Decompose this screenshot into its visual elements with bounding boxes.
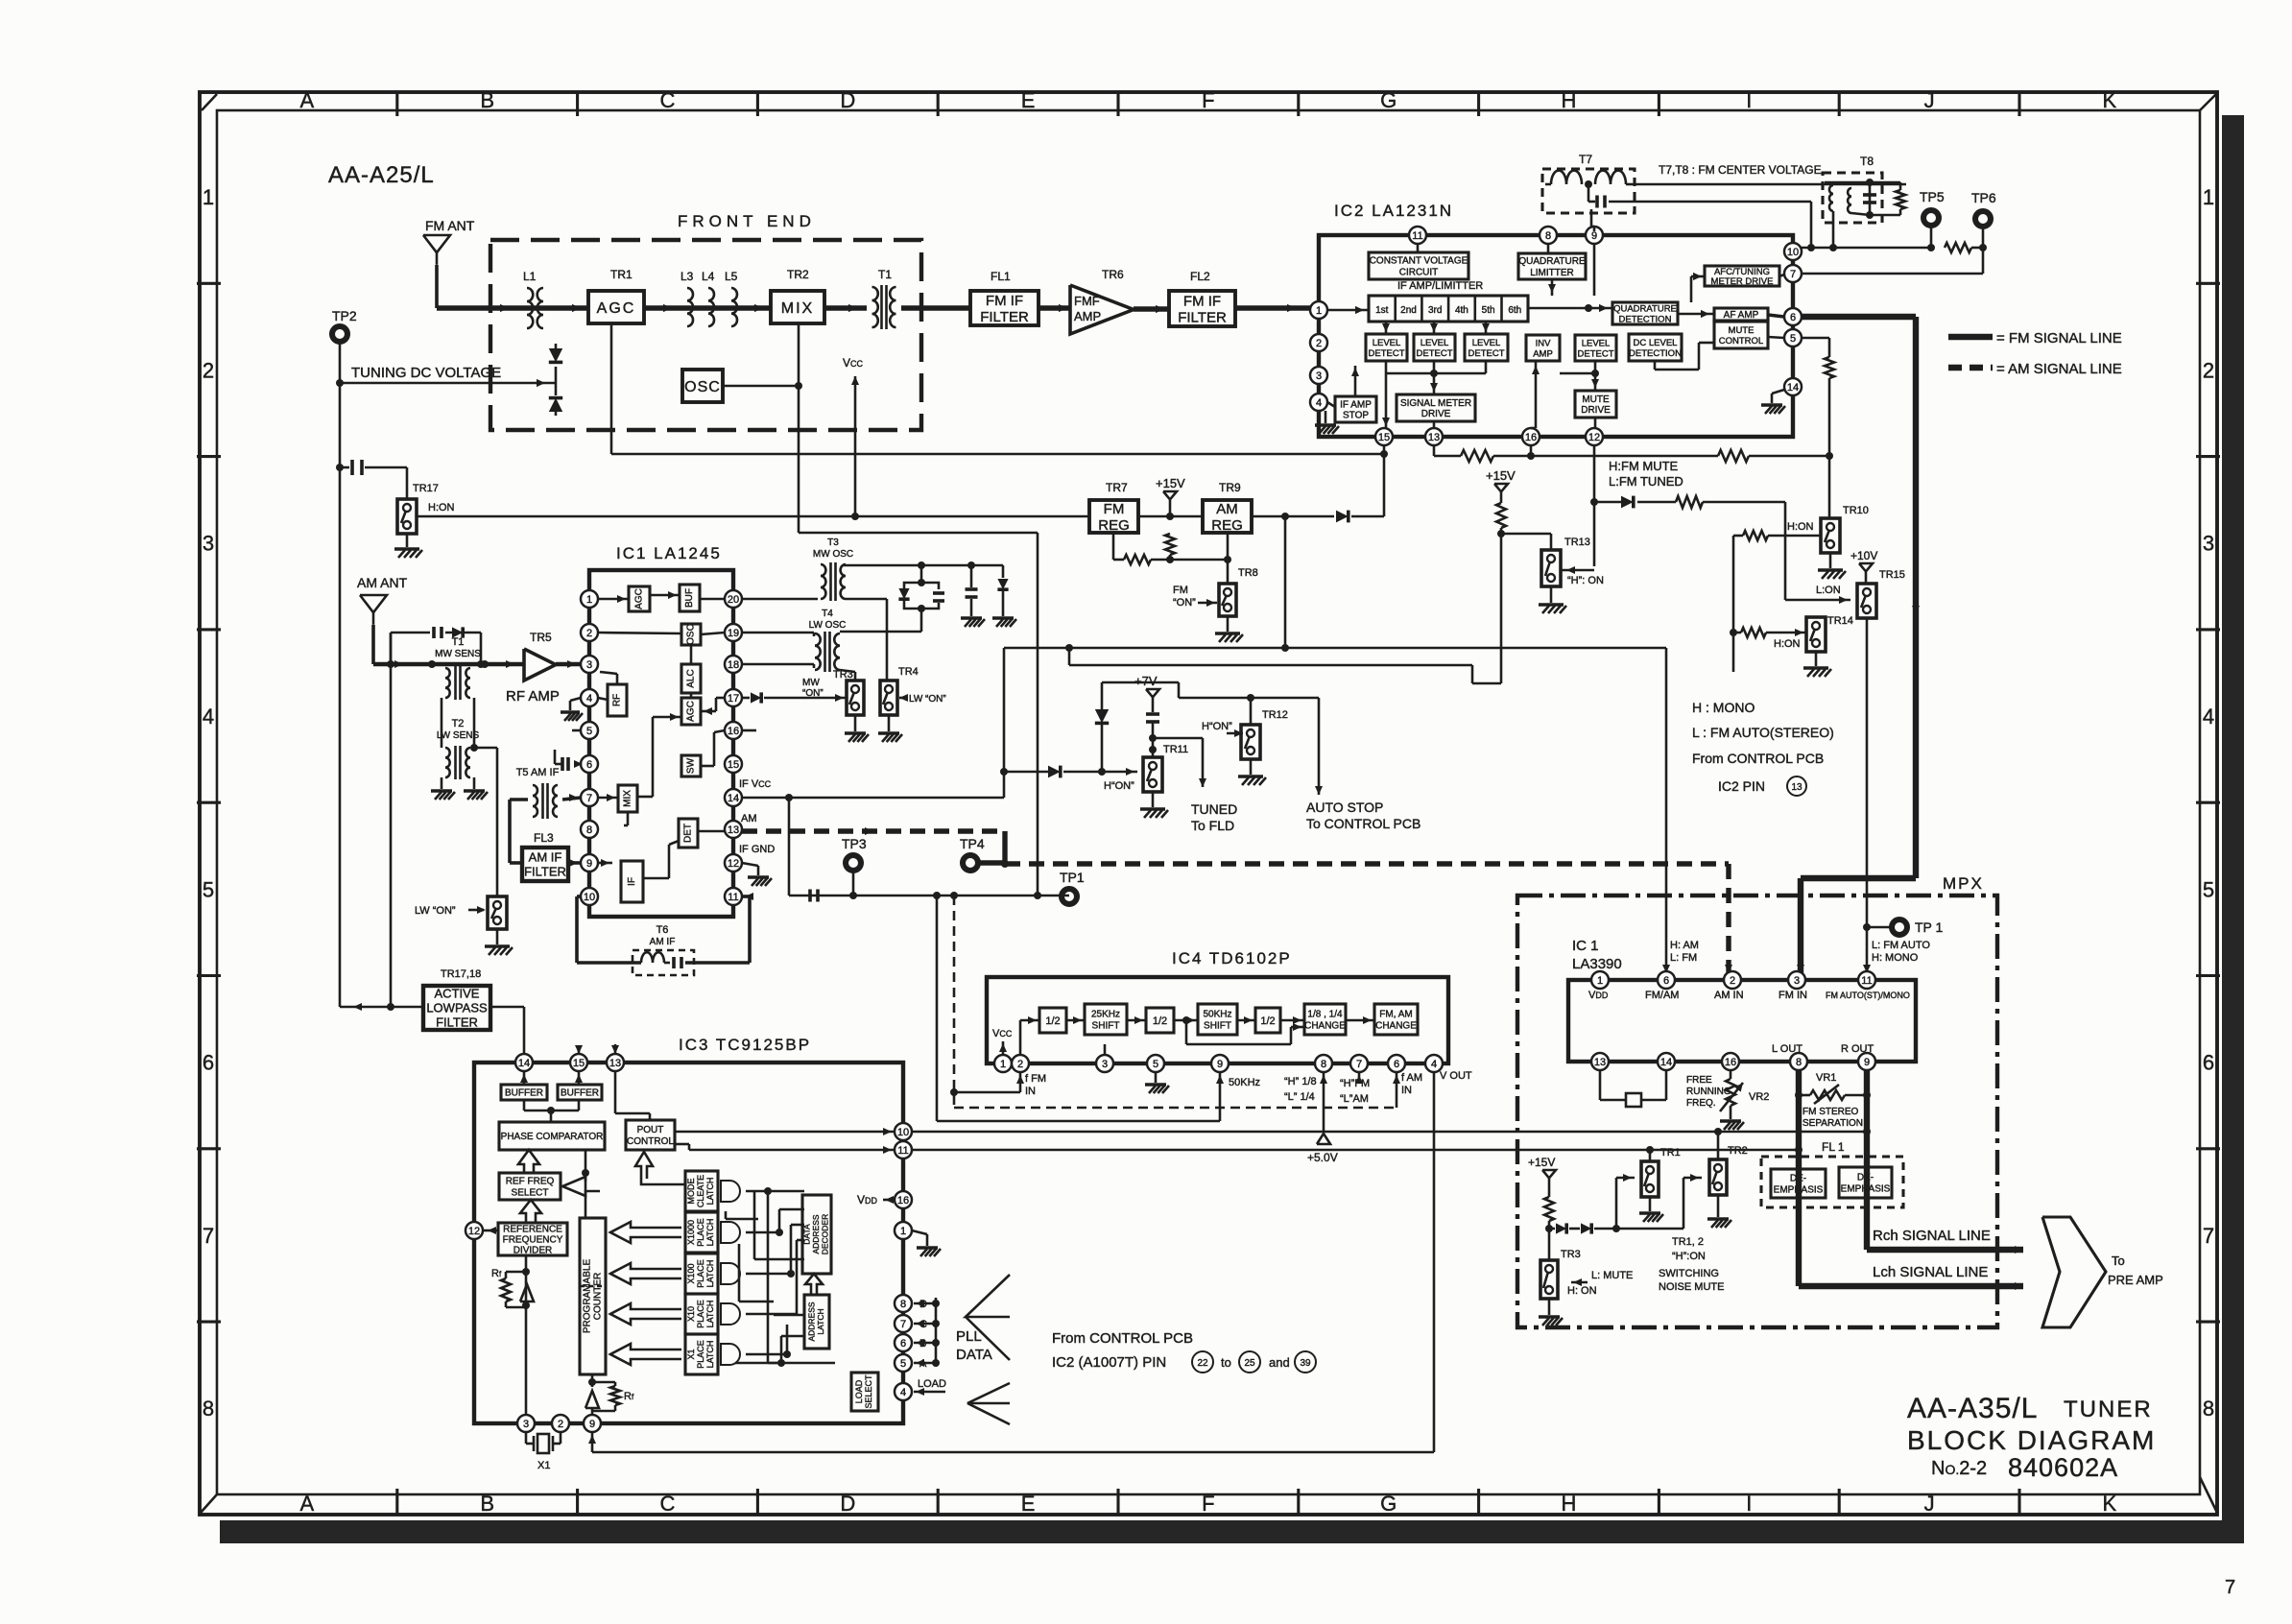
MPX IC box outline: [1568, 980, 1916, 1062]
svg-text:FM: FM: [1104, 501, 1125, 517]
IC2 pin 2: [1310, 334, 1327, 351]
varactor bridge MW: [920, 565, 923, 583]
svg-text:TR14: TR14: [1827, 615, 1853, 627]
svg-text:COUNTER: COUNTER: [593, 1273, 604, 1320]
wire TUNED output: [1153, 737, 1203, 740]
svg-text:TP2: TP2: [332, 308, 357, 323]
IC1 internal wires: [598, 598, 629, 601]
coil L1: [527, 288, 533, 328]
svg-text:NO.2-2: NO.2-2: [1931, 1458, 1987, 1479]
IC2 block INV AMP: [1526, 335, 1560, 361]
IC3 pin 16: [895, 1191, 912, 1208]
svg-text:FMF: FMF: [1074, 294, 1100, 308]
svg-text:3: 3: [1794, 975, 1800, 987]
MPX pin 8: [1790, 1053, 1807, 1070]
svg-text:C: C: [660, 1492, 676, 1516]
IC2 block IF AMP STOP: [1335, 396, 1376, 422]
svg-text:LOAD: LOAD: [854, 1379, 864, 1403]
svg-text:L : FM AUTO(STEREO): L : FM AUTO(STEREO): [1692, 725, 1834, 740]
svg-text:AM ANT: AM ANT: [357, 575, 408, 590]
svg-text:TR3: TR3: [1561, 1249, 1581, 1260]
wire to TR2 MPX: [1616, 1228, 1683, 1230]
grid column ticks: [395, 92, 398, 116]
resistor +15V bias: [1165, 534, 1175, 555]
resistor on mute line: [1676, 496, 1703, 508]
transistor TR2 MIX: [771, 291, 824, 323]
border frame inner: [217, 110, 2200, 1494]
svg-text:FREQ.: FREQ.: [1686, 1098, 1716, 1109]
wire pin13-14 link: [1599, 1070, 1602, 1100]
svg-text:25KHz: 25KHz: [1091, 1010, 1120, 1020]
wire TR2 top: [1717, 1132, 1720, 1159]
wire AM out dashed: [742, 828, 1005, 833]
IC1 block AGC: [629, 586, 650, 611]
svg-text:DIVIDER: DIVIDER: [513, 1246, 553, 1256]
svg-text:TUNED: TUNED: [1191, 801, 1237, 817]
wire Lch out: [1799, 1283, 2023, 1289]
wire pin11 loop: [748, 896, 752, 963]
svg-text:25: 25: [1244, 1358, 1255, 1369]
PLL LOAD big arrow: [967, 1383, 1010, 1403]
IC2 pin 4: [1310, 394, 1327, 411]
IC1 pin 3: [581, 656, 598, 673]
svg-text:8: 8: [1321, 1059, 1326, 1070]
wire bridge to T4: [920, 609, 923, 632]
svg-text:AGC: AGC: [686, 701, 697, 722]
svg-text:14: 14: [518, 1058, 530, 1069]
IC2 block LEVEL DETECT 1: [1366, 334, 1407, 361]
svg-text:2: 2: [1017, 1059, 1023, 1070]
svg-text:TR4: TR4: [898, 666, 919, 678]
svg-text:Rf: Rf: [624, 1391, 634, 1402]
wire IC2 pin13 down: [1433, 445, 1436, 456]
IC4 pin 2: [1012, 1055, 1029, 1072]
transistor TR8 switch: [1219, 584, 1236, 616]
svg-text:TR2: TR2: [787, 268, 809, 281]
svg-text:METER DRIVE: METER DRIVE: [1711, 276, 1774, 287]
svg-text:6: 6: [203, 1051, 214, 1075]
wire mono control vertical: [1732, 536, 1735, 672]
svg-text:FM: FM: [1173, 585, 1188, 596]
wire bus to IF Vcc: [789, 797, 1004, 800]
svg-text:IN: IN: [1025, 1086, 1036, 1097]
svg-text:1: 1: [203, 185, 214, 209]
svg-text:TR15: TR15: [1879, 569, 1905, 581]
svg-text:SHIFT: SHIFT: [1204, 1021, 1231, 1032]
svg-text:“H”FM: “H”FM: [1340, 1078, 1370, 1089]
diode osc gnd: [1002, 565, 1005, 578]
svg-text:AMP: AMP: [1533, 348, 1553, 359]
wire IC3 pin10 to R OUT: [912, 1131, 1867, 1134]
svg-text:3: 3: [1102, 1059, 1108, 1070]
IC3 pin 5: [895, 1354, 912, 1372]
wire pin18 to T4: [742, 663, 814, 666]
svg-text:TP 1: TP 1: [1915, 919, 1944, 935]
svg-text:B: B: [480, 88, 494, 112]
zener +7V: [1146, 712, 1159, 716]
svg-text:CIRCUIT: CIRCUIT: [1399, 268, 1439, 278]
svg-text:FL2: FL2: [1190, 270, 1210, 283]
svg-text:6: 6: [2203, 1051, 2214, 1075]
wire MUTE CONTROL to pin5: [1768, 337, 1784, 338]
wire pin14 to osc out: [742, 797, 789, 800]
IC1 pin 14: [725, 789, 742, 806]
IC3 block X1000 PLACE LATCH: [685, 1212, 718, 1253]
wire TR13 junction: [1500, 528, 1503, 683]
svg-text:+10V: +10V: [1850, 549, 1877, 562]
svg-text:IC1 LA1245: IC1 LA1245: [616, 544, 722, 562]
transistor TR9 AM REG: [1203, 500, 1252, 533]
IC2 pin 1: [1310, 301, 1327, 319]
svg-text:STOP: STOP: [1343, 411, 1369, 421]
svg-text:LATCH: LATCH: [705, 1178, 715, 1206]
svg-text:PLACE: PLACE: [696, 1259, 705, 1288]
capacitor TP2-TR17: [340, 466, 349, 469]
IC3 block POUT CONTROL: [626, 1120, 675, 1150]
wire AFC to pin7: [1779, 275, 1784, 276]
svg-text:3rd: 3rd: [1428, 305, 1442, 316]
IC2 pin 13: [1425, 428, 1443, 445]
IC2 block QUADRATURE LIMITTER: [1518, 253, 1586, 279]
wire PC to counter: [585, 1150, 587, 1218]
IC2 pin 8: [1540, 227, 1557, 244]
svg-text:K: K: [2103, 1492, 2117, 1516]
svg-text:VR2: VR2: [1749, 1091, 1769, 1103]
IC2 block MUTE DRIVE: [1575, 391, 1616, 418]
svg-text:SELECT: SELECT: [864, 1374, 873, 1409]
svg-text:to: to: [1221, 1355, 1231, 1370]
ground below TR13: [1550, 586, 1553, 603]
svg-text:7: 7: [586, 793, 592, 804]
svg-text:LW “ON”: LW “ON”: [909, 694, 946, 705]
svg-text:X1000: X1000: [686, 1220, 696, 1245]
svg-text:INV: INV: [1536, 338, 1552, 348]
power +15V MPX: [1542, 1170, 1556, 1178]
svg-text:1/2: 1/2: [1260, 1015, 1275, 1027]
svg-text:9: 9: [589, 1419, 595, 1430]
test point TP1 MPX: [1892, 919, 1907, 935]
svg-text:2: 2: [203, 358, 214, 382]
svg-text:To FLD: To FLD: [1191, 818, 1234, 833]
svg-text:H: H: [1562, 88, 1577, 112]
svg-text:840602A: 840602A: [2008, 1453, 2118, 1482]
svg-text:5: 5: [1153, 1059, 1158, 1070]
svg-text:+15V: +15V: [1156, 476, 1185, 490]
wire AM out to MPX: [1005, 861, 1729, 866]
IC1 pin 2: [581, 624, 598, 641]
wire L OUT down: [1796, 1070, 1802, 1286]
IC2 pin 10: [1784, 243, 1802, 260]
svg-text:FL 1: FL 1: [1822, 1140, 1845, 1154]
filter FL2 FM IF FILTER: [1169, 291, 1235, 326]
ground TR3 MPX: [1548, 1299, 1551, 1315]
transformer T6 AM IF dashed box: [633, 950, 694, 975]
wire AUTO STOP output: [1318, 698, 1321, 795]
svg-text:EMPHASIS: EMPHASIS: [1774, 1185, 1824, 1196]
svg-text:6: 6: [1663, 975, 1669, 987]
resistor TR14 base: [1730, 629, 1737, 636]
svg-text:13: 13: [1594, 1057, 1606, 1068]
svg-text:I: I: [1746, 1492, 1752, 1516]
resistor RA crystal: [506, 1271, 526, 1274]
svg-text:1: 1: [586, 594, 592, 606]
ground IC2 pin14: [1772, 390, 1784, 394]
wire IC3 pin11 to L OUT: [912, 1149, 1798, 1152]
svg-text:1: 1: [1597, 975, 1603, 987]
IC3 gate mesh wires: [746, 1190, 804, 1193]
svg-text:16: 16: [897, 1195, 909, 1206]
MPX pin 13: [1591, 1053, 1609, 1070]
IC4 block 25KHz SHIFT: [1085, 1004, 1127, 1035]
IC4 chain arrows: [1066, 1019, 1085, 1022]
svg-text:7: 7: [2203, 1224, 2214, 1248]
svg-text:D: D: [840, 88, 855, 112]
svg-text:IF AMP: IF AMP: [1340, 400, 1372, 411]
IC1 block MIX: [618, 785, 637, 812]
open arrow into RFS: [562, 1177, 600, 1196]
PLL DATA big arrow: [966, 1275, 1010, 1317]
svg-text:DETECT: DETECT: [1578, 348, 1614, 359]
wire IC3 pin13 stub: [614, 1044, 617, 1054]
transformer T5 AM IF: [533, 785, 537, 817]
svg-text:TR6: TR6: [1102, 268, 1124, 281]
svg-text:LEVEL: LEVEL: [1421, 338, 1449, 348]
wire to TR15: [1785, 599, 1850, 602]
svg-text:CHANGE: CHANGE: [1375, 1021, 1417, 1032]
IC4 block 1/8 1/4 CHANGE: [1304, 1004, 1346, 1035]
wire ALF to IC3 pin14: [490, 1006, 524, 1009]
transformer T7 dashed box: [1542, 169, 1635, 213]
svg-text:IN: IN: [1401, 1085, 1412, 1096]
IC3 block BUFFER 2: [558, 1085, 602, 1100]
wire T3 top line: [843, 564, 1003, 567]
svg-text:Rf: Rf: [491, 1268, 502, 1279]
IC3 pin 6: [895, 1334, 912, 1351]
wire osc line TP3: [789, 895, 1069, 897]
svg-text:J: J: [1924, 1492, 1935, 1516]
svg-text:LATCH: LATCH: [705, 1260, 715, 1288]
ground TR1 MPX: [1649, 1197, 1652, 1211]
IC1 pin 18: [725, 656, 742, 673]
resistor on feedback line: [1718, 450, 1749, 462]
wire pin2 internal: [1019, 1020, 1022, 1055]
svg-text:FM AUTO(ST)/MONO: FM AUTO(ST)/MONO: [1826, 991, 1910, 1000]
wire IC2 pin15 down: [1383, 445, 1386, 516]
IC1 pin 11: [725, 888, 742, 905]
wire to TR1 MPX: [1615, 1178, 1618, 1229]
wire buffers to PC: [523, 1100, 526, 1111]
power +15V main: [1163, 491, 1177, 499]
svg-text:TP6: TP6: [1971, 190, 1996, 205]
open arrow RFD to RFS: [520, 1200, 541, 1223]
wire TR11 input: [1004, 771, 1048, 774]
IC3 block REFERENCE FREQUENCY DIVIDER: [498, 1223, 567, 1255]
IC2 pin 6: [1784, 308, 1802, 325]
svg-text:FREQUENCY: FREQUENCY: [503, 1235, 563, 1246]
IC3 pin 9: [584, 1415, 601, 1432]
svg-text:To: To: [2112, 1254, 2125, 1268]
svg-text:3: 3: [1316, 370, 1322, 382]
svg-text:+7V: +7V: [1134, 674, 1158, 688]
svg-text:5: 5: [203, 877, 214, 901]
svg-text:11: 11: [897, 1145, 908, 1157]
svg-text:11: 11: [728, 892, 738, 903]
svg-text:9: 9: [586, 858, 592, 870]
svg-text:DETECTION: DETECTION: [1619, 314, 1672, 324]
wire T1 bypass: [390, 633, 393, 664]
svg-text:15: 15: [1378, 432, 1390, 443]
svg-text:MIX: MIX: [623, 790, 633, 807]
svg-text:LATCH: LATCH: [705, 1301, 715, 1328]
svg-text:TR9: TR9: [1219, 481, 1241, 494]
svg-text:H : MONO: H : MONO: [1692, 700, 1755, 715]
IC4 pin 6: [1388, 1055, 1405, 1072]
IC4 pin 4: [1425, 1055, 1443, 1072]
MPX pin 2: [1724, 971, 1741, 989]
diodes MPX mute: [1549, 1228, 1555, 1230]
wire IC1 pin16 stub: [742, 729, 756, 732]
IC1 pin 1: [581, 590, 598, 608]
svg-text:5: 5: [586, 726, 592, 737]
svg-text:5: 5: [1790, 333, 1796, 345]
IC3 block PHASE COMPARATOR: [499, 1122, 605, 1150]
big arrow To PRE AMP: [2042, 1217, 2106, 1327]
IC2 box outline: [1319, 235, 1793, 437]
transformer T1: [872, 287, 878, 327]
svg-text:SELECT: SELECT: [512, 1188, 549, 1199]
svg-text:I: I: [1746, 88, 1752, 112]
svg-text:DECODER: DECODER: [821, 1214, 830, 1255]
svg-text:TR17,18: TR17,18: [441, 968, 481, 980]
ground IC3 pin1: [912, 1230, 927, 1234]
svg-text:VCC: VCC: [992, 1028, 1013, 1039]
IC1 block BUF: [680, 585, 700, 611]
svg-text:L: MUTE: L: MUTE: [1591, 1270, 1633, 1281]
transformer T8 dashed box: [1823, 173, 1882, 223]
IC3 block DATA ADDRESS DECODER: [802, 1195, 831, 1274]
wire FM/AM control down: [1665, 648, 1668, 980]
svg-text:TR11: TR11: [1163, 744, 1188, 755]
wire pin15 to buffer: [578, 1071, 581, 1085]
wire pin20 to T3: [742, 598, 818, 601]
svg-text:RF AMP: RF AMP: [506, 688, 560, 705]
capacitor osc gnd: [970, 565, 973, 587]
svg-text:TR5: TR5: [530, 631, 552, 644]
svg-text:Lch SIGNAL LINE: Lch SIGNAL LINE: [1873, 1264, 1988, 1280]
svg-text:POUT: POUT: [637, 1125, 664, 1135]
svg-text:CONSTANT VOLTAGE: CONSTANT VOLTAGE: [1370, 256, 1468, 267]
wire FM into MPX: [1801, 875, 1916, 881]
IC1 pin 9: [581, 854, 598, 872]
wire AGC feedback line: [610, 323, 613, 454]
svg-text:G: G: [1380, 1492, 1397, 1516]
svg-text:PROGRAMABLE: PROGRAMABLE: [583, 1259, 593, 1334]
svg-text:TUNING DC VOLTAGE: TUNING DC VOLTAGE: [351, 365, 501, 381]
svg-text:MW OSC: MW OSC: [813, 549, 853, 560]
svg-text:TR1: TR1: [610, 268, 633, 281]
svg-text:T4: T4: [822, 609, 833, 619]
svg-text:4th: 4th: [1455, 305, 1468, 316]
wire T5-FL3 link: [510, 798, 528, 801]
svg-text:R OUT: R OUT: [1841, 1043, 1874, 1055]
svg-text:X1: X1: [537, 1460, 550, 1471]
svg-text:A: A: [300, 88, 315, 112]
svg-text:L: FM: L: FM: [1670, 952, 1697, 964]
IC2 pin 12: [1586, 428, 1603, 445]
transistor TR12 switch: [1241, 725, 1260, 759]
block DE-EMPHASIS L: [1771, 1169, 1826, 1198]
svg-text:T8: T8: [1860, 155, 1874, 168]
power +7V: [1146, 689, 1159, 697]
svg-text:DETECTION: DETECTION: [1629, 348, 1682, 359]
svg-text:TP4: TP4: [960, 836, 985, 851]
ground below TR14: [1815, 652, 1818, 666]
test point TP2: [332, 326, 347, 342]
svg-text:“ON”: “ON”: [802, 688, 824, 699]
svg-text:T3: T3: [827, 537, 839, 548]
wire QD to AF AMP: [1678, 313, 1714, 316]
svg-text:AM IF: AM IF: [650, 937, 676, 947]
trimmer VR2: [1730, 1070, 1732, 1079]
IC3 pin 11: [895, 1141, 912, 1158]
wire QD to AFC: [1690, 276, 1693, 302]
svg-text:8: 8: [1545, 230, 1551, 242]
wire T4 bottom to TR3: [840, 670, 855, 672]
svg-text:BLOCK DIAGRAM: BLOCK DIAGRAM: [1907, 1425, 2156, 1455]
svg-text:V OUT: V OUT: [1440, 1070, 1472, 1082]
svg-text:10: 10: [1787, 247, 1799, 258]
IC3 pin 2: [552, 1415, 569, 1432]
IC1 pin 15: [725, 755, 742, 773]
wire f FM IN feed: [936, 896, 939, 1121]
wire Vcc feed: [854, 376, 857, 516]
wire counter to pin9: [591, 1374, 594, 1387]
IC1 block OSC: [681, 624, 701, 645]
svg-text:AUTO STOP: AUTO STOP: [1306, 800, 1383, 815]
wire pout to pin10: [675, 1131, 895, 1134]
svg-text:LEVEL: LEVEL: [1472, 338, 1501, 348]
svg-text:12: 12: [728, 858, 739, 870]
wire +7V top link: [1102, 681, 1179, 684]
svg-text:L: FM AUTO: L: FM AUTO: [1872, 940, 1930, 951]
wire pin6 f AM IN: [1396, 1072, 1398, 1108]
wire RF AMP to pin3: [556, 662, 581, 666]
IC3 pin 7: [895, 1315, 912, 1332]
wire pout to pin11: [675, 1143, 689, 1146]
wire pin14 to buffer: [523, 1071, 526, 1085]
IC2 pin 9: [1586, 227, 1603, 244]
wire pin7 to TP6: [1802, 273, 1983, 275]
wire pin10 to TP5: [1802, 247, 1931, 250]
IC1 pin 6: [581, 755, 598, 773]
svg-text:SEPARATION: SEPARATION: [1803, 1118, 1863, 1129]
diode REG to pin15: [1336, 511, 1349, 523]
filter FL3 AM IF FILTER: [522, 848, 568, 881]
svg-text:VCC: VCC: [843, 356, 864, 370]
svg-text:NOISE MUTE: NOISE MUTE: [1659, 1281, 1724, 1293]
AM antenna AM ANT: [360, 595, 387, 612]
svg-text:G: G: [1380, 88, 1397, 112]
svg-text:OSC: OSC: [686, 624, 697, 645]
svg-text:ACTIVE: ACTIVE: [435, 987, 480, 1001]
svg-text:MIX: MIX: [781, 300, 814, 317]
IC2 block AFC/TUNING METER DRIVE: [1705, 266, 1779, 286]
ground IC4 pin5: [1155, 1072, 1158, 1083]
svg-text:REG: REG: [1098, 517, 1130, 534]
IC3 box outline: [474, 1063, 903, 1423]
svg-text:LA3390: LA3390: [1572, 956, 1622, 972]
svg-text:B: B: [480, 1492, 494, 1516]
